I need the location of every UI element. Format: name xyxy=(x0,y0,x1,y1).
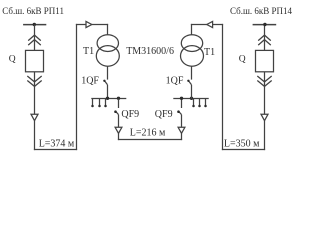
busbar РП11 xyxy=(23,24,46,26)
wire busbar to breaker Q right xyxy=(264,25,266,51)
svg-text:ТМ31600/6: ТМ31600/6 xyxy=(126,46,174,57)
wire HV corner down to T1 left xyxy=(107,24,109,35)
wire QF9 right from busbar xyxy=(181,99,183,109)
transformer T1 left (primary winding) xyxy=(97,35,118,52)
wire right feeder down xyxy=(264,121,266,150)
svg-text:Q: Q xyxy=(9,55,16,65)
breaker 1QF right (blade) xyxy=(188,80,191,84)
svg-text:QF9: QF9 xyxy=(121,109,139,120)
cable termination on HV line right xyxy=(207,21,213,27)
node junction on РП14 busbar xyxy=(263,23,266,26)
svg-text:L=216 м: L=216 м xyxy=(130,128,166,139)
node T1 right feeder junction xyxy=(190,97,193,100)
wire HV line to transformer T1 right xyxy=(191,24,223,26)
wire T1 left to 1QF xyxy=(107,66,109,79)
breaker Q left (box) xyxy=(26,50,44,71)
wire QF9 left down xyxy=(118,133,120,140)
breaker 1QF left (blade) xyxy=(104,80,107,84)
wire QF9 left to termination xyxy=(118,115,120,128)
wire below Q right box xyxy=(264,72,266,115)
svg-text:Т1: Т1 xyxy=(204,47,215,58)
outgoing feeder stub 3 right xyxy=(205,99,207,106)
cable termination QF9 right xyxy=(178,127,185,133)
outgoing feeder stub 2 right xyxy=(199,99,201,106)
wire HV corner down to T1 right xyxy=(191,24,193,35)
busbar РП14 xyxy=(253,24,277,26)
drawout contact chevrons below Q left xyxy=(27,76,41,82)
breaker Q right (box) xyxy=(256,50,274,71)
LV busbar left xyxy=(91,98,126,100)
outgoing feeder stub 2 left xyxy=(99,99,101,106)
svg-text:1QF: 1QF xyxy=(166,76,184,87)
wire left feeder down xyxy=(34,121,36,150)
transformer T1 left (secondary winding) xyxy=(96,46,119,67)
svg-text:L=350 м: L=350 м xyxy=(224,139,260,150)
wire cable L=350 bottom run xyxy=(222,149,265,151)
wire cable L=374 bottom run xyxy=(34,149,77,151)
svg-text:1QF: 1QF xyxy=(81,76,99,87)
wire 1QF right to LV busbar xyxy=(191,85,193,99)
breaker QF9 left (blade) xyxy=(115,111,118,115)
node junction on РП11 busbar xyxy=(33,23,36,26)
wire QF9 left from busbar xyxy=(118,99,120,109)
svg-text:QF9: QF9 xyxy=(155,109,173,120)
wire busbar to breaker Q left xyxy=(34,25,36,51)
drawout contact chevrons below Q right xyxy=(257,76,271,82)
cable termination on HV line left xyxy=(86,21,92,27)
svg-text:Т1: Т1 xyxy=(83,46,94,57)
outgoing feeder stub 1 right xyxy=(193,99,195,106)
svg-text:Q: Q xyxy=(239,55,246,65)
node QF9 left junction xyxy=(117,97,120,100)
wire below Q left box xyxy=(34,72,36,115)
LV busbar right xyxy=(173,98,208,100)
drawout contact chevrons above Q left xyxy=(28,35,41,41)
cable termination right feeder xyxy=(261,114,268,121)
transformer T1 right (primary winding) xyxy=(181,35,202,52)
drawout contact chevrons above Q right xyxy=(258,35,271,41)
outgoing feeder stub 3 left xyxy=(105,99,107,106)
breaker QF9 right (blade) xyxy=(178,111,181,115)
node QF9 right junction xyxy=(180,97,183,100)
svg-text:Сб.ш. 6кВ РП14: Сб.ш. 6кВ РП14 xyxy=(230,6,292,16)
wire cable L=350 riser xyxy=(222,24,224,150)
wire cable L=216 bottom run xyxy=(118,139,182,141)
wire QF9 right down xyxy=(181,133,183,140)
wire HV line to transformer T1 left xyxy=(76,24,108,26)
svg-text:L=374 м: L=374 м xyxy=(39,139,75,150)
wire 1QF left to LV busbar xyxy=(107,85,109,99)
transformer T1 right (secondary winding) xyxy=(181,46,204,67)
wire T1 right to 1QF xyxy=(191,66,193,79)
cable termination left feeder xyxy=(31,114,38,121)
cable termination QF9 left xyxy=(115,127,122,133)
wire cable L=374 riser xyxy=(76,24,78,150)
outgoing feeder stub 1 left xyxy=(92,99,94,106)
node T1 left feeder junction xyxy=(106,97,109,100)
svg-text:Сб.ш. 6кВ РП11: Сб.ш. 6кВ РП11 xyxy=(2,6,64,16)
wire QF9 right to termination xyxy=(181,115,183,128)
